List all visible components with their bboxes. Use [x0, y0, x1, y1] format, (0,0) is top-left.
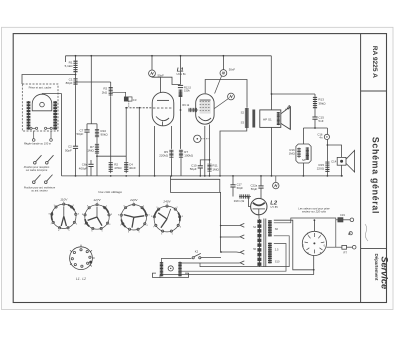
svg-text:UY 85: UY 85	[271, 205, 279, 209]
wire tap 220 lead	[237, 251, 240, 254]
node bus M2	[223, 55, 225, 57]
tube socket view L1 L2	[70, 245, 95, 270]
resistor R6	[73, 78, 77, 86]
switch contact pair 1	[34, 155, 54, 164]
svg-text:,4: ,4	[285, 106, 291, 112]
wire tap 127 lead	[221, 236, 240, 238]
wire tap 240 bottom lead	[180, 262, 240, 264]
svg-text:2kΩ: 2kΩ	[102, 90, 108, 94]
wire bus to L3	[180, 56, 182, 85]
svg-text:400pF: 400pF	[79, 166, 88, 170]
mains coil left	[160, 262, 163, 276]
capacitor C16 circle	[324, 134, 329, 139]
wire bottom run left end	[159, 275, 161, 278]
terminal phi	[348, 232, 352, 235]
output transformer primary	[245, 108, 249, 128]
tube L1 anode plate	[157, 99, 169, 101]
rotary selector 127V	[84, 204, 110, 230]
resistor R10	[95, 129, 99, 139]
resistor R15	[325, 161, 329, 173]
tube L1 cathode	[156, 117, 169, 121]
wire x139 vertical	[138, 108, 140, 176]
wire R1 to R6	[75, 74, 77, 78]
wire bottom run	[160, 274, 314, 276]
svg-text:L1 . L2: L1 . L2	[76, 277, 86, 281]
wire R8 to bus	[180, 159, 182, 176]
tube L2 grid structure	[200, 100, 211, 114]
primary tap arrow 240	[240, 261, 244, 265]
node bus x109	[110, 175, 112, 177]
node bus x327	[327, 175, 329, 177]
wire grid dash line to tube 1	[126, 107, 152, 109]
svg-text:R9 1k: R9 1k	[182, 103, 189, 107]
svg-text:80pF: 80pF	[66, 81, 73, 85]
resistor R7	[95, 143, 99, 155]
svg-text:220kΩ: 220kΩ	[159, 154, 169, 158]
wire terminal A dashed to grid line	[201, 138, 210, 140]
node tee	[314, 127, 316, 129]
wire to tweeter	[327, 145, 341, 157]
wire bus to R1	[75, 56, 77, 60]
rotary selector 240V	[153, 205, 181, 232]
wire bus left end tick	[65, 56, 67, 62]
node C10 branch	[209, 159, 211, 161]
wire heater return	[200, 236, 289, 267]
node bus x341	[341, 175, 343, 177]
wire y124 to R10	[96, 124, 98, 129]
antenna frame box (dashed)	[22, 84, 58, 131]
speaker frame	[260, 110, 281, 128]
svg-text:50pF: 50pF	[76, 132, 83, 136]
svg-text:R18 1,5k: R18 1,5k	[234, 199, 245, 203]
wire K2 to tap bus	[201, 257, 221, 259]
wire branch horizontal y124	[87, 123, 97, 125]
svg-text:secteur sur 220 volts: secteur sur 220 volts	[302, 210, 327, 214]
node tweeter branch	[327, 144, 329, 146]
wire heater loop below ground bus	[171, 176, 220, 193]
node bus L3	[180, 55, 182, 57]
wire AVC vertical x91	[90, 56, 92, 124]
wire R13 top	[314, 94, 316, 96]
svg-text:K2: K2	[195, 249, 199, 253]
wire M2 to tube2	[215, 76, 222, 94]
svg-text:S10: S10	[275, 260, 280, 264]
svg-text:220Ω: 220Ω	[317, 167, 325, 171]
mains transformer primary	[257, 219, 261, 267]
svg-text:5,1kΩ: 5,1kΩ	[65, 64, 74, 68]
sidebar divider	[360, 34, 362, 303]
wire cadre to plug pins	[34, 131, 51, 139]
svg-text:1MΩ: 1MΩ	[212, 167, 219, 171]
wire to C7	[86, 124, 88, 130]
wire tone box to bus	[302, 163, 304, 176]
wire B+ top bus	[66, 55, 272, 57]
svg-text:4n: 4n	[319, 136, 323, 140]
svg-text:5nF: 5nF	[318, 119, 323, 123]
terminal A circle	[194, 135, 201, 142]
svg-text:Prise et ant. cadre: Prise et ant. cadre	[29, 85, 52, 89]
wire OPT return	[220, 128, 247, 176]
svg-text:sur cadre incorporé: sur cadre incorporé	[26, 169, 48, 172]
node bus x261	[260, 175, 262, 177]
wire C3 bottom stub	[128, 101, 130, 108]
node R7 bottom junction	[96, 155, 98, 157]
capacitor C17	[230, 185, 235, 187]
node socket bottom	[313, 269, 315, 271]
wire bus to C22a	[260, 176, 262, 186]
svg-text:C19: C19	[340, 213, 345, 217]
wire volume grid vertical	[209, 125, 211, 164]
resistor R18 (horizontal)	[239, 194, 251, 198]
resistor R2 cathode	[109, 162, 113, 174]
capacitor C4	[124, 162, 128, 174]
rectifier tube L2	[251, 198, 267, 215]
wire heater run down to mains	[220, 192, 237, 252]
svg-text:90kΩ: 90kΩ	[101, 133, 109, 137]
wire C15 to junction	[314, 119, 316, 128]
node bus x271	[271, 175, 273, 177]
svg-text:50µF: 50µF	[251, 187, 258, 191]
wire tube2 cathode to bus	[204, 126, 206, 176]
mains transformer secondary heater	[268, 220, 272, 237]
cadre winding right	[53, 101, 57, 130]
earth terminal RT	[342, 245, 356, 249]
node bus x125	[125, 175, 127, 177]
wire M1 to grid cap	[152, 77, 181, 85]
wire R10 to R7	[96, 139, 98, 144]
node bus x233	[232, 175, 234, 177]
wire C8a leads	[90, 160, 92, 164]
wire right loop	[274, 218, 336, 247]
rotary selector 220V	[120, 203, 147, 230]
wire bus to C17	[232, 176, 234, 185]
measure point M2	[220, 70, 227, 77]
tweeter frame	[337, 157, 346, 165]
wire x126 vertical	[125, 108, 127, 162]
mains transformer secondary HT	[268, 243, 272, 264]
primary tap arrow 130	[240, 235, 244, 239]
node bus x91	[90, 55, 92, 57]
svg-text:HP S1: HP S1	[263, 118, 272, 122]
mains transformer core	[264, 219, 266, 268]
measure point M5	[273, 182, 279, 188]
capacitor C8a	[88, 164, 93, 166]
capacitor C2	[73, 146, 78, 148]
wire tube1 anode side to R5	[170, 126, 172, 149]
tube L1 cathode lead	[162, 122, 164, 127]
svg-text:100kΩ: 100kΩ	[184, 154, 194, 158]
svg-text:S3: S3	[241, 121, 245, 125]
svg-text:Département: Département	[374, 254, 379, 281]
svg-text:40nF: 40nF	[129, 166, 136, 170]
node speaker feed	[271, 93, 273, 95]
tone box	[296, 144, 311, 163]
wire tee left down	[302, 128, 304, 144]
wire tap 110 lead	[221, 225, 240, 227]
node R9 junction	[180, 109, 182, 111]
wire speaker bottom to bus	[271, 127, 273, 175]
svg-text:50pF: 50pF	[237, 186, 244, 190]
svg-text:1MΩ: 1MΩ	[87, 149, 94, 153]
svg-text:RT: RT	[344, 251, 348, 255]
wire R4 to C3	[112, 92, 126, 97]
sidebar box divider above service block	[361, 248, 387, 250]
svg-text:RA 9225 A: RA 9225 A	[371, 46, 378, 78]
svg-text:Service: Service	[379, 256, 389, 289]
socket L2 pins	[305, 233, 325, 253]
cadre terminals bottom left pair	[30, 127, 38, 129]
node bus x75	[75, 175, 77, 177]
svg-text:50nF: 50nF	[229, 68, 236, 72]
wire M5 stem	[275, 176, 277, 183]
wire tone tee	[303, 127, 327, 129]
wire RT to socket	[327, 246, 342, 248]
svg-text:470Ω: 470Ω	[114, 166, 122, 170]
wire M2 stem	[222, 56, 224, 70]
resistor R5	[169, 150, 173, 159]
ground bus	[62, 175, 344, 177]
wire x154 vertical tube1 cathode	[154, 126, 156, 176]
svg-text:C3: C3	[133, 98, 137, 102]
wire y156 to C4 branch	[97, 155, 126, 157]
wire grid cap down into tube	[160, 77, 162, 93]
wire mains to K2	[162, 258, 192, 262]
wire R15 to bus	[326, 174, 328, 176]
capacitor C15	[312, 117, 317, 119]
svg-text:Schéma général: Schéma général	[370, 137, 380, 214]
wire tweeter to bus	[341, 165, 343, 176]
drawing frame border	[13, 34, 386, 303]
svg-text:S/P: S/P	[302, 159, 306, 162]
measure point M1	[149, 70, 156, 77]
resistor R4 osc grid	[109, 87, 113, 97]
node bus x209	[209, 175, 211, 177]
wire M1 stem to bus	[151, 56, 153, 70]
tube L1 envelope	[152, 92, 174, 126]
wire B+ bus drop right	[271, 56, 315, 94]
wire M3 to tube2 screen	[214, 99, 228, 109]
wire speaker top feed	[271, 94, 273, 110]
svg-text:127V: 127V	[93, 198, 101, 202]
svg-text:ou ant. secteur: ou ant. secteur	[31, 189, 48, 192]
node bus x139	[138, 175, 140, 177]
mains fuse	[168, 266, 173, 271]
speaker voice coil	[277, 112, 280, 125]
svg-text:S2: S2	[241, 111, 245, 115]
coil L3 top cap	[178, 85, 183, 87]
tweeter cone	[346, 150, 355, 172]
node grid x126	[125, 107, 127, 109]
svg-text:50pF: 50pF	[65, 148, 72, 152]
node bus x204	[204, 175, 206, 177]
wire C19 stem	[336, 219, 338, 221]
wire L2 to transformer	[258, 216, 260, 219]
wire HT lead top	[180, 244, 286, 272]
wire R4 long bottom lead	[110, 97, 112, 162]
node bus x154	[154, 175, 156, 177]
node bus x303	[303, 175, 305, 177]
wire branch to C10	[200, 160, 209, 166]
cadre terminals bottom right pair	[45, 127, 53, 129]
svg-text:150k: 150k	[184, 88, 190, 92]
wire R7 to ground	[96, 155, 98, 176]
wire antenna feed	[22, 75, 76, 85]
resistor R16	[297, 148, 301, 159]
wire C7 to ground	[86, 132, 88, 176]
wire L3 to R9 node	[180, 97, 182, 149]
output transformer core	[252, 110, 255, 128]
node tap 110	[220, 225, 222, 227]
tube L1 grid dashes	[153, 107, 173, 109]
node bus x200	[199, 175, 201, 177]
svg-text:2,5: 2,5	[275, 248, 279, 252]
primary tap arrow 220	[240, 250, 244, 254]
svg-text:50µF: 50µF	[190, 167, 197, 171]
wire R9 to tube 2 grid	[193, 109, 196, 111]
pencil scribble in sidebar	[365, 224, 368, 241]
wire R5 to bus	[170, 159, 172, 176]
svg-text:Vue côté câblage: Vue côté câblage	[98, 190, 122, 194]
wire C10 to bus	[199, 168, 201, 176]
resistor R13	[313, 96, 317, 110]
wire tee right down	[326, 128, 328, 134]
wire R18 to L2	[245, 197, 250, 207]
wire C2 to ground bus	[75, 148, 77, 176]
wire R6 down to C2	[75, 86, 77, 146]
node bus x171	[171, 175, 173, 177]
wire tube2 anode loop to OPT	[205, 80, 247, 108]
node K2 bus	[220, 251, 222, 253]
node bus x220	[219, 175, 221, 177]
capacitor C7	[84, 130, 89, 132]
wire socket bottom stem	[313, 256, 315, 275]
wire socket top stem	[313, 220, 315, 231]
svg-text:C14: C14	[331, 159, 337, 163]
capacitor C3 box	[124, 97, 132, 101]
svg-text:240V: 240V	[162, 199, 171, 203]
speaker cone	[281, 107, 291, 130]
rotary selector 110V	[51, 203, 77, 229]
capacitor C22a	[258, 186, 263, 188]
wire dome top to node	[42, 93, 62, 95]
wire heater loop	[274, 220, 314, 270]
wire C16 down	[326, 140, 328, 162]
svg-text:1MΩ: 1MΩ	[289, 151, 295, 155]
node grid x139	[138, 107, 140, 109]
svg-text:Régler bande ou 150 m: Régler bande ou 150 m	[24, 142, 52, 146]
wire R11 to bus	[209, 173, 211, 176]
mains entry bracket	[153, 273, 189, 278]
svg-text:39kΩ: 39kΩ	[318, 101, 326, 105]
switch K2	[192, 253, 201, 259]
tube L2 cathode	[199, 117, 212, 121]
wire R6 to mixer grid	[76, 81, 111, 83]
antenna cadre dome	[32, 94, 52, 111]
plug pin circles	[32, 139, 52, 142]
antenna terminal C19	[338, 218, 354, 222]
mains coil right	[178, 262, 181, 276]
node tap 127	[220, 236, 222, 238]
tone box coil	[306, 147, 309, 160]
primary tap arrow 110	[240, 223, 244, 227]
svg-text:110V: 110V	[60, 197, 68, 201]
wire C22a to L2 top	[260, 188, 262, 198]
coil L3	[179, 90, 183, 98]
switch contact pair 2	[33, 175, 53, 184]
capacitor C10	[198, 166, 203, 168]
tube L2 output envelope	[196, 94, 214, 124]
wire R13 to C15	[314, 110, 316, 117]
resistor R9 (horizontal)	[188, 108, 198, 112]
resistor R11	[207, 163, 211, 172]
resistor R1	[73, 60, 77, 74]
node socket top	[314, 219, 316, 221]
measure point M3	[228, 93, 235, 100]
wire left vertical to ground bus	[61, 94, 63, 176]
wire R4 top lead	[110, 82, 112, 87]
svg-text:220V: 220V	[129, 198, 138, 202]
node antenna feed	[75, 74, 77, 76]
socket L2 view circle	[302, 231, 326, 255]
svg-text:S6: S6	[275, 227, 279, 231]
cadre winding left	[27, 101, 31, 130]
wire C17 to R18	[232, 187, 234, 197]
node R1 top	[75, 55, 77, 57]
sidebar box divider under title block	[361, 90, 387, 92]
resistor R8	[179, 150, 183, 159]
svg-text:UCH 81: UCH 81	[177, 72, 187, 76]
node bus M1	[151, 55, 153, 57]
